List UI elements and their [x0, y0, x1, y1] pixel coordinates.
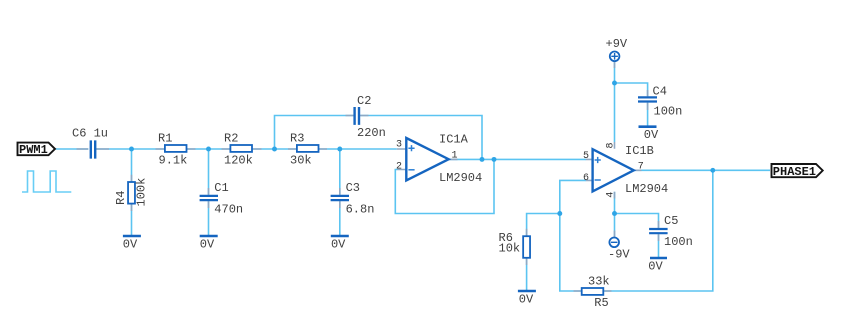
svg-text:R5: R5	[594, 296, 608, 310]
svg-text:100k: 100k	[135, 178, 149, 207]
svg-text:120k: 120k	[224, 154, 253, 168]
svg-text:0V: 0V	[644, 128, 659, 142]
svg-text:7: 7	[638, 161, 644, 172]
svg-text:C2: C2	[357, 94, 371, 108]
svg-text:6: 6	[583, 173, 589, 184]
svg-text:5: 5	[583, 151, 589, 162]
svg-text:0V: 0V	[331, 237, 346, 251]
svg-text:R3: R3	[290, 132, 304, 146]
svg-text:4: 4	[605, 192, 616, 198]
svg-text:C3: C3	[346, 181, 360, 195]
svg-text:9.1k: 9.1k	[159, 154, 188, 168]
svg-text:30k: 30k	[290, 154, 312, 168]
svg-text:R1: R1	[158, 132, 172, 146]
svg-text:1: 1	[452, 151, 458, 162]
svg-text:100n: 100n	[664, 235, 693, 249]
svg-text:LM2904: LM2904	[625, 182, 668, 196]
svg-text:0V: 0V	[200, 237, 215, 251]
svg-text:IC1A: IC1A	[439, 133, 469, 147]
svg-text:220n: 220n	[357, 126, 386, 140]
svg-text:8: 8	[605, 142, 616, 148]
svg-text:C6 1u: C6 1u	[72, 127, 108, 141]
svg-text:33k: 33k	[588, 275, 610, 289]
svg-text:0V: 0V	[123, 237, 138, 251]
svg-text:IC1B: IC1B	[625, 144, 654, 158]
svg-text:+9V: +9V	[606, 37, 628, 51]
svg-text:PHASE1: PHASE1	[773, 165, 816, 179]
svg-text:6.8n: 6.8n	[346, 203, 375, 217]
svg-text:R4: R4	[114, 191, 128, 205]
svg-text:0V: 0V	[648, 260, 663, 274]
svg-text:LM2904: LM2904	[439, 171, 482, 185]
svg-text:2: 2	[396, 162, 402, 173]
svg-text:100n: 100n	[654, 105, 683, 119]
svg-text:C4: C4	[653, 85, 667, 99]
svg-text:3: 3	[396, 140, 402, 151]
svg-text:0V: 0V	[519, 293, 534, 307]
svg-text:C1: C1	[214, 181, 228, 195]
svg-text:PWM1: PWM1	[19, 143, 48, 157]
svg-text:R2: R2	[224, 132, 238, 146]
svg-text:470n: 470n	[214, 203, 243, 217]
svg-text:10k: 10k	[499, 241, 521, 255]
svg-text:C5: C5	[664, 214, 678, 228]
svg-text:-9V: -9V	[608, 248, 630, 262]
